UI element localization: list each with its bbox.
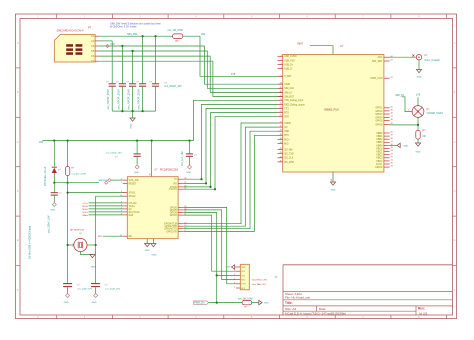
wire <box>53 195 55 202</box>
svg-text:Date:: Date: <box>319 307 326 311</box>
wire <box>183 127 277 226</box>
wire <box>417 139 419 143</box>
net label 1V8 <box>231 73 236 76</box>
svg-text:File: HL-Kicad_sch: File: HL-Kicad_sch <box>285 296 311 300</box>
wire <box>121 46 123 84</box>
ground flag <box>397 143 409 147</box>
svg-text:CTLo: CTLo <box>83 203 89 205</box>
wire <box>390 124 418 126</box>
ground <box>415 143 420 154</box>
wire <box>189 156 191 165</box>
wire <box>183 210 236 280</box>
resistor R4 reference <box>244 307 248 309</box>
capacitor C2 value <box>116 89 120 110</box>
svg-text:E: E <box>454 238 456 242</box>
svg-text:PWR_CON: PWR_CON <box>371 78 383 80</box>
svg-text:RE: RE <box>129 236 133 238</box>
svg-text:0R: 0R <box>423 135 426 138</box>
svg-text:RA6o: RA6o <box>83 214 89 217</box>
wire <box>99 40 113 42</box>
capacitor C9 <box>63 284 72 287</box>
svg-text:MOSI: MOSI <box>82 206 88 208</box>
ground <box>134 165 139 174</box>
IC U2 left pins <box>278 55 306 164</box>
svg-text:cnx_NPOP_25V0: cnx_NPOP_25V0 <box>127 89 131 110</box>
wire <box>142 36 144 83</box>
svg-text:SIM_DW: SIM_DW <box>127 33 138 36</box>
capacitor C10 <box>91 284 100 287</box>
svg-text:GND: GND <box>416 152 421 154</box>
svg-text:KBR2: KBR2 <box>376 139 383 141</box>
svg-text:cnx_10µF_16V: cnx_10µF_16V <box>77 289 92 291</box>
label RA6o <box>83 214 123 217</box>
wire <box>200 36 283 76</box>
capacitor C4 <box>139 84 146 86</box>
capacitor C8 value <box>181 151 184 166</box>
connector P2 value <box>425 59 440 62</box>
svg-text:TX: TX <box>174 179 177 181</box>
svg-text:cnx_NPOP_25V0: cnx_NPOP_25V0 <box>137 89 141 110</box>
label CTLo <box>83 203 123 205</box>
antenna P3 reference <box>427 108 431 111</box>
svg-text:B: B <box>17 90 19 94</box>
label MISO <box>82 209 122 211</box>
resistor R3 reference <box>71 167 75 169</box>
wire <box>95 287 97 293</box>
svg-text:MIC-: MIC- <box>284 143 289 145</box>
resistor R3 value <box>71 173 86 175</box>
capacitor C4 reference <box>136 82 140 84</box>
antenna P3 value <box>427 112 444 115</box>
svg-text:KBR0: KBR0 <box>376 133 383 135</box>
net label 1V8 <box>201 33 206 36</box>
svg-text:DTR: DTR <box>284 117 289 119</box>
svg-text:GPIO1/TB: GPIO1/TB <box>166 231 177 233</box>
svg-text:AE 9045PD30: AE 9045PD30 <box>70 229 85 232</box>
junction <box>200 178 202 180</box>
wire <box>53 141 55 167</box>
wire <box>121 86 123 111</box>
wire <box>390 56 417 58</box>
svg-text:P?: P? <box>88 26 92 30</box>
IC U1 body <box>127 177 178 239</box>
svg-text:GND: GND <box>92 302 97 304</box>
connector J1 body <box>240 264 249 290</box>
capacitor C8 reference <box>194 155 198 157</box>
ground <box>151 244 157 257</box>
svg-text:1V8: 1V8 <box>201 33 206 36</box>
capacitor C2 <box>119 84 126 86</box>
wire <box>111 41 113 84</box>
svg-text:cnx_1M_0.5W: cnx_1M_0.5W <box>168 29 184 32</box>
junction <box>205 182 207 184</box>
wire <box>67 245 69 284</box>
svg-text:VBAT: VBAT <box>297 43 304 46</box>
svg-text:PIC18F26K22SA: PIC18F26K22SA <box>160 169 179 172</box>
wire <box>209 302 243 304</box>
junction <box>216 302 218 304</box>
wire <box>99 51 284 88</box>
svg-text:CM: CM <box>73 243 75 246</box>
svg-text:XTAL1: XTAL1 <box>129 192 137 195</box>
svg-text:1V8: 1V8 <box>416 94 421 97</box>
svg-text:GPIO3: GPIO3 <box>170 215 178 217</box>
wire <box>216 275 218 302</box>
svg-text:D: D <box>454 189 456 193</box>
capacitor C7 value <box>106 153 122 155</box>
junction <box>142 35 144 37</box>
svg-text:SIMCARD-6-D-IS-DV-4: SIMCARD-6-D-IS-DV-4 <box>57 29 85 33</box>
wire <box>146 239 148 244</box>
svg-text:Vers MOD CPU: Vers MOD CPU <box>252 278 268 281</box>
svg-text:DTR: DTR <box>241 284 246 286</box>
antenna P3 GSM coax <box>412 106 424 118</box>
svg-text:C: C <box>454 140 456 144</box>
label SCL0 <box>83 212 123 214</box>
svg-text:GPIO2: GPIO2 <box>375 111 383 113</box>
wire <box>96 195 125 197</box>
svg-text:RX: RX <box>174 183 178 185</box>
wire <box>68 183 125 193</box>
junction <box>142 110 144 112</box>
wire <box>136 156 138 165</box>
junction <box>67 244 69 246</box>
junction <box>136 140 138 142</box>
title block <box>283 265 453 316</box>
resistor R1 <box>173 34 183 39</box>
junction <box>132 50 134 52</box>
capacitor C7 <box>134 154 141 156</box>
connector P2 Conn_Coaxial <box>412 55 421 60</box>
svg-text:B: B <box>454 90 456 94</box>
svg-text:BAT_DET: BAT_DET <box>372 60 383 63</box>
junction <box>209 186 211 188</box>
svg-text:KBC4: KBC4 <box>376 161 383 163</box>
net label SIM_Tw <box>395 94 404 97</box>
ground flag <box>103 179 111 183</box>
connector J1 pins <box>234 266 246 290</box>
capacitor C6 value <box>47 215 50 233</box>
svg-text:VUS_/DD: VUS_/DD <box>129 180 139 182</box>
svg-text:KBR1: KBR1 <box>376 136 383 138</box>
wire <box>111 179 123 181</box>
capacitor C6 reference <box>59 192 63 194</box>
svg-text:USB_D-: USB_D- <box>284 69 293 71</box>
note text <box>110 22 161 29</box>
svg-text:KROW: KROW <box>375 167 383 169</box>
wire <box>183 215 236 271</box>
svg-text:NC: NC <box>284 127 288 129</box>
svg-text:GPIO4: GPIO4 <box>375 117 383 119</box>
wire <box>183 109 277 184</box>
ground flag <box>226 265 236 269</box>
ground <box>64 294 70 304</box>
svg-text:BUZ: BUZ <box>98 236 103 238</box>
diode D1 <box>52 167 57 173</box>
diode D1 value <box>44 166 47 186</box>
wire <box>132 51 134 84</box>
wire <box>183 131 277 229</box>
svg-text:GND: GND <box>152 254 157 256</box>
svg-text:TXD_Debug_input: TXD_Debug_input <box>284 99 303 102</box>
junction <box>121 110 123 112</box>
svg-text:KiCad E.D.A. kicad (T.B.D.-14: KiCad E.D.A. kicad (T.B.D.-147-ga551915f… <box>285 312 346 316</box>
svg-text:Title:: Title: <box>285 301 293 305</box>
wire <box>99 56 284 92</box>
svg-text:TL/A1: TL/A1 <box>129 205 136 208</box>
oscillator X1 reference <box>70 229 85 232</box>
svg-text:Conn_Coaxial: Conn_Coaxial <box>425 59 440 62</box>
svg-text:GND: GND <box>331 190 336 192</box>
svg-text:24 MHz 8/38 >> 635000 baud: 24 MHz 8/38 >> 635000 baud <box>29 225 32 259</box>
wire <box>252 302 259 304</box>
svg-text:I2S_TXD: I2S_TXD <box>284 154 294 156</box>
svg-text:GND: GND <box>417 77 422 79</box>
capacitor C10 reference <box>105 284 109 286</box>
ground <box>50 203 56 212</box>
pin number <box>150 172 152 175</box>
wire <box>155 36 157 83</box>
wire <box>80 252 92 255</box>
svg-text:SIM_IO: SIM_IO <box>284 92 292 94</box>
connector J1 reference <box>275 276 278 279</box>
wire <box>53 173 55 183</box>
IC U2 body <box>283 54 384 172</box>
svg-text:GND: GND <box>131 123 133 128</box>
svg-text:MISO: MISO <box>82 209 88 211</box>
svg-text:C: C <box>17 140 19 144</box>
ground <box>186 165 191 174</box>
svg-text:RTC: RTC <box>284 135 289 137</box>
junction <box>214 188 216 190</box>
resistor R2 <box>416 130 420 139</box>
svg-text:SIM800_PILO: SIM800_PILO <box>324 108 339 111</box>
capacitor C3 <box>129 84 136 86</box>
wire <box>111 86 113 111</box>
svg-text:GND: GND <box>264 303 269 305</box>
junction <box>216 274 218 276</box>
global label PWR_CN <box>194 301 209 305</box>
svg-text:U?: U? <box>340 44 344 48</box>
wire <box>183 113 277 187</box>
wire <box>136 141 138 154</box>
net label 1V8 <box>416 94 421 97</box>
wire <box>132 111 134 118</box>
wire <box>310 46 333 55</box>
svg-text:VDDR: VDDR <box>284 123 291 125</box>
svg-text:GND: GND <box>403 145 408 147</box>
svg-text:E: E <box>17 238 19 242</box>
connector P1 pins <box>95 36 98 61</box>
capacitor C1 <box>109 84 116 86</box>
junction <box>95 244 97 246</box>
wire <box>112 110 155 112</box>
svg-text:KBR4: KBR4 <box>376 145 383 147</box>
wire <box>183 123 277 224</box>
wire <box>67 141 69 167</box>
ground <box>330 182 335 192</box>
svg-text:GPIOA/CTS: GPIOA/CTS <box>164 228 177 231</box>
svg-text:SLP: SLP <box>241 288 246 290</box>
svg-text:GND: GND <box>226 266 231 268</box>
junction <box>67 140 69 142</box>
svg-text:GND: GND <box>50 210 55 212</box>
IC U2 right pins <box>371 56 394 169</box>
svg-text:I2S_CLK: I2S_CLK <box>284 158 294 160</box>
wire <box>67 176 69 183</box>
wire <box>54 182 99 184</box>
resistor R4 <box>242 300 252 304</box>
resistor R1 value <box>168 29 184 32</box>
capacitor C8 <box>186 154 193 156</box>
svg-text:CTL/TX: CTL/TX <box>169 189 177 191</box>
ground <box>416 70 421 79</box>
ground <box>90 255 96 269</box>
wire <box>99 46 284 84</box>
svg-text:Size: A4: Size: A4 <box>285 307 296 311</box>
svg-text:cnx_4k7_0.5W: cnx_4k7_0.5W <box>71 173 86 175</box>
IC U1 reference <box>154 169 158 172</box>
junction <box>151 140 153 142</box>
wire <box>183 35 200 37</box>
svg-text:KCOL: KCOL <box>376 164 383 166</box>
svg-text:cnx_27µF_16V: cnx_27µF_16V <box>105 289 120 291</box>
capacitor C2 reference <box>116 82 120 84</box>
capacitor C6 <box>51 193 58 195</box>
wire <box>189 141 191 154</box>
svg-text:GND: GND <box>64 302 69 304</box>
junction <box>53 140 55 142</box>
svg-text:VSIM: VSIM <box>284 84 290 86</box>
svg-text:USB_D+: USB_D+ <box>284 64 294 66</box>
IC U1 right pins <box>164 178 187 234</box>
label BUZ <box>98 236 123 238</box>
label Vers MOD CPU <box>252 278 268 281</box>
svg-text:Vers TAB CPU: Vers TAB CPU <box>252 283 267 286</box>
svg-text:A: A <box>17 41 19 45</box>
junction <box>53 182 55 184</box>
wire <box>99 35 173 37</box>
wire <box>87 244 96 246</box>
crystal oscillator X1 <box>74 238 87 251</box>
net label SIM_DW <box>127 33 138 36</box>
wire <box>43 140 194 142</box>
junction <box>67 182 69 184</box>
svg-text:1V8: 1V8 <box>110 43 115 46</box>
note vertical <box>29 225 32 259</box>
wire <box>418 60 420 70</box>
label MOSI <box>82 206 122 208</box>
wire <box>183 207 236 283</box>
capacitor C1 reference <box>106 82 110 84</box>
junction <box>188 140 190 142</box>
wire <box>152 239 154 244</box>
svg-text:SCL/TC1A: SCL/TC1A <box>129 211 140 214</box>
oscillator X1 designator <box>79 233 83 235</box>
svg-text:cnx_100nF_16V: cnx_100nF_16V <box>164 85 182 88</box>
junction <box>132 110 134 112</box>
svg-text:CTS: CTS <box>284 108 289 110</box>
svg-text:ADC: ADC <box>378 56 383 59</box>
diode D1 reference <box>58 170 62 172</box>
wire <box>194 100 278 140</box>
svg-text:GND: GND <box>241 267 246 269</box>
svg-text:A: A <box>454 41 456 45</box>
capacitor C4 value <box>137 89 141 110</box>
capacitor C5 labels <box>164 83 182 88</box>
svg-text:cnx_100nF_16V: cnx_100nF_16V <box>47 215 50 233</box>
net label 1V8 <box>39 141 44 144</box>
net label VBAT <box>297 43 304 46</box>
svg-text:GPIO3: GPIO3 <box>375 114 383 116</box>
ground flag <box>259 300 269 304</box>
resistor R3 <box>65 167 69 176</box>
svg-text:KBC3: KBC3 <box>376 158 383 160</box>
junction <box>121 45 123 47</box>
wire <box>67 287 69 293</box>
wire <box>155 86 157 111</box>
svg-text:SIM_RST: SIM_RST <box>284 96 295 98</box>
wire <box>95 196 97 245</box>
svg-text:cnx_1uF_16V: cnx_1uF_16V <box>181 151 184 166</box>
svg-text:VDD: VDD <box>284 131 289 133</box>
svg-text:D: D <box>17 189 19 193</box>
svg-text:I2S_RXD: I2S_RXD <box>284 162 294 164</box>
svg-text:GND: GND <box>145 250 150 252</box>
resistor R4 value <box>238 298 254 300</box>
svg-text:U_BAT: U_BAT <box>284 75 292 78</box>
svg-text:GND: GND <box>134 172 139 174</box>
connector P1 value <box>57 29 85 33</box>
svg-text:cnx_100nF_16V: cnx_100nF_16V <box>106 153 122 155</box>
wire <box>390 144 397 146</box>
wire <box>67 193 69 245</box>
svg-text:KBC1: KBC1 <box>376 152 383 154</box>
svg-text:cnx_NPOP_25V0: cnx_NPOP_25V0 <box>106 89 110 110</box>
wire <box>132 86 134 111</box>
ground flag <box>98 180 107 184</box>
ground <box>145 244 150 252</box>
svg-text:RTS: RTS <box>284 113 289 115</box>
resistor R2 reference <box>423 130 427 133</box>
wire <box>402 97 413 112</box>
connector P2 reference <box>425 55 429 58</box>
wire <box>95 245 97 284</box>
capacitor C3 value <box>127 89 131 110</box>
ground <box>130 118 135 129</box>
SIM card connector P1 <box>54 35 95 64</box>
svg-text:CONN0_COAX: CONN0_COAX <box>427 112 444 115</box>
svg-text:cnx_NPOP_25V0: cnx_NPOP_25V0 <box>116 89 120 110</box>
svg-text:CTL/A0: CTL/A0 <box>129 202 138 205</box>
svg-text:ZHCS1kw +1V-1A: ZHCS1kw +1V-1A <box>44 166 47 186</box>
svg-text:GND: GND <box>186 172 191 174</box>
svg-text:XTAL2: XTAL2 <box>129 195 137 198</box>
capacitor C3 reference <box>126 82 130 84</box>
junction <box>67 192 69 194</box>
wire <box>183 104 277 179</box>
label CM <box>73 243 75 246</box>
IC U1 value <box>160 169 179 172</box>
IC U2 reference <box>340 44 344 48</box>
svg-text:GND: GND <box>103 180 108 182</box>
svg-text:SIM_CLK: SIM_CLK <box>284 88 294 90</box>
svg-text:Id: 2/2: Id: 2/2 <box>419 311 428 315</box>
connector P1 reference <box>88 26 92 30</box>
junction <box>154 35 156 37</box>
svg-text:RA6: RA6 <box>129 214 134 217</box>
capacitor C1 value <box>106 89 110 110</box>
